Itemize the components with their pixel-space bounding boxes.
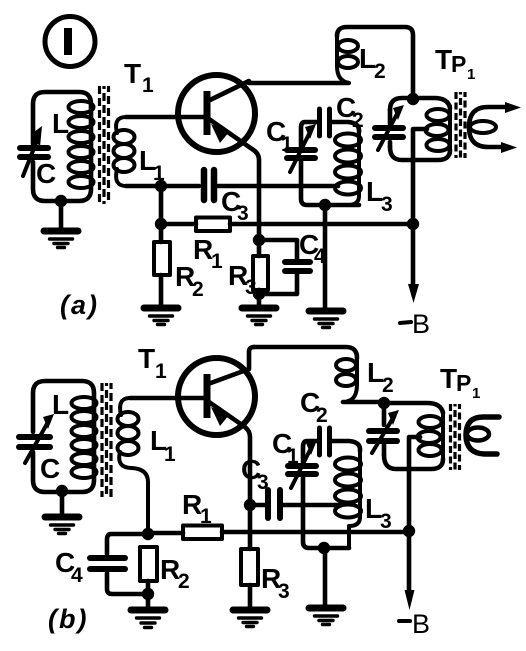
svg-text:C: C	[40, 453, 60, 484]
node R2 bottom (circuit b)	[142, 588, 154, 600]
node base bias (circuit b)	[142, 528, 154, 540]
node tank bottom (circuit b)	[56, 485, 68, 497]
resistor R2 (circuit a)	[154, 242, 170, 306]
-B arrow (circuit b)	[405, 531, 415, 610]
TP1 secondary curl (circuit a)	[469, 102, 521, 153]
-B arrow (circuit a)	[408, 224, 419, 303]
label -B (circuit b)	[399, 619, 410, 623]
ground (tank a)	[44, 201, 78, 248]
svg-text:4: 4	[71, 564, 83, 587]
svg-text:1: 1	[164, 443, 176, 466]
inductor L (circuit a)	[69, 101, 94, 188]
node emitter / C3 (circuit b)	[244, 499, 256, 511]
capacitor C1 variable (circuit b)	[288, 440, 349, 548]
svg-text:L: L	[52, 389, 69, 420]
transistor T1 (circuit a)	[178, 75, 259, 240]
node base bias (circuit a)	[155, 180, 167, 192]
resistor R2 (circuit b)	[140, 547, 157, 607]
ground (R2 b)	[131, 610, 165, 628]
svg-text:2: 2	[382, 374, 394, 397]
node tank L3 bottom (circuit a)	[319, 199, 331, 211]
svg-text:P: P	[451, 51, 466, 77]
inductor L3 (circuit a)	[335, 132, 361, 205]
svg-text:3: 3	[278, 580, 290, 603]
inductor L (circuit b)	[72, 397, 97, 478]
svg-text:1: 1	[200, 505, 212, 528]
wire collector rail (circuit b)	[254, 347, 357, 358]
svg-text:2: 2	[352, 109, 364, 132]
svg-text:3: 3	[380, 510, 392, 533]
figure number 1 (circled)	[45, 17, 95, 67]
ground (R3 a)	[242, 308, 276, 325]
wire tank bottom to ground (circuit b)	[323, 548, 328, 605]
transformer T1 core (circuit b)	[102, 383, 111, 497]
capacitor C2 (circuit a)	[301, 109, 359, 146]
tank loop wire (circuit b)	[33, 381, 94, 492]
wire L1 bottom to node	[126, 184, 161, 189]
node tank bottom (circuit a)	[55, 195, 67, 207]
svg-text:1: 1	[142, 74, 154, 97]
ground (R3 b)	[233, 610, 267, 627]
ground (R2 a)	[144, 308, 178, 325]
node tank L3 bottom (circuit b)	[318, 542, 330, 554]
svg-text:T: T	[124, 58, 141, 89]
svg-text:1: 1	[211, 250, 223, 273]
TP1 core (circuit a)	[456, 92, 465, 158]
transformer TP1 loop (circuit b)	[384, 403, 443, 469]
wire base node down (circuit a)	[159, 186, 164, 242]
svg-text:T: T	[440, 363, 457, 394]
wire tank bottom to ground (circuit a)	[323, 205, 328, 308]
svg-text:T: T	[138, 343, 155, 374]
TP1 primary coil (circuit b)	[418, 413, 444, 461]
TP1 secondary curl (circuit b)	[466, 417, 499, 454]
capacitor C4 (circuit a)	[259, 240, 310, 294]
tank loop wire (circuit a)	[33, 92, 91, 201]
svg-text:2: 2	[316, 404, 328, 427]
resistor R3 (circuit a)	[253, 240, 268, 306]
transformer TP1 loop (circuit a)	[390, 98, 450, 160]
inductor L2 (circuit a)	[337, 36, 358, 83]
inductor L1 (circuit a)	[114, 117, 135, 186]
capacitor C variable (circuit a)	[20, 126, 48, 176]
svg-text:B: B	[412, 309, 430, 339]
svg-text:3: 3	[257, 471, 269, 494]
TP1 primary coil (circuit a)	[426, 106, 451, 153]
inductor L3 (circuit b)	[335, 449, 361, 548]
variable capacitor TP1 (circuit a)	[375, 105, 404, 150]
svg-text:(b): (b)	[48, 604, 88, 634]
ground (tank b)	[45, 491, 79, 534]
capacitor C3 (circuit b)	[250, 490, 339, 518]
node TP1 top (circuit b)	[378, 397, 390, 409]
svg-text:T: T	[435, 44, 452, 75]
TP1 tap wire (circuit a)	[413, 129, 427, 224]
wire L1 top to base	[126, 115, 204, 120]
ground (L3 tank a)	[309, 311, 343, 328]
svg-text:2: 2	[374, 60, 386, 83]
svg-text:1: 1	[281, 133, 293, 156]
svg-text:1: 1	[467, 66, 475, 83]
wire L2 to TP1 (circuit b)	[343, 400, 384, 405]
svg-text:3: 3	[237, 202, 249, 225]
transformer T1 core	[100, 86, 109, 204]
svg-text:1: 1	[287, 445, 299, 468]
resistor R1 (circuit b)	[148, 526, 409, 540]
wire L1 top to base (circuit b)	[130, 396, 204, 401]
node rail to TP1 top	[407, 93, 419, 105]
svg-text:P: P	[456, 370, 471, 396]
transistor T1 device (circuit b)	[178, 347, 255, 505]
inductor L2 (circuit b)	[336, 356, 357, 401]
svg-text:1: 1	[155, 360, 167, 383]
TP1 core (circuit b)	[451, 404, 460, 470]
label -B (circuit a)	[400, 322, 411, 323]
resistor R1 (circuit a)	[161, 218, 413, 232]
capacitor C4 (circuit b)	[90, 534, 148, 594]
svg-text:2: 2	[178, 570, 190, 593]
resistor R3 (circuit b)	[241, 505, 258, 607]
svg-text:4: 4	[314, 245, 326, 268]
capacitor C variable (circuit b)	[19, 414, 54, 463]
svg-text:3: 3	[381, 193, 393, 216]
wire top rail to TP1 (circuit a)	[337, 27, 413, 98]
node -B bus (circuit b)	[403, 525, 415, 537]
svg-text:B: B	[412, 609, 430, 639]
capacitor C1 variable (circuit a)	[287, 124, 359, 205]
capacitor C2 (circuit b)	[303, 428, 360, 462]
svg-text:C: C	[36, 158, 56, 189]
inductor L1 (circuit b)	[118, 398, 149, 534]
node R1/R2 (circuit a)	[155, 218, 167, 230]
TP1 tap wire (circuit b)	[409, 437, 420, 531]
svg-text:2: 2	[192, 278, 204, 301]
wire collector to L2 (circuit a)	[249, 81, 348, 86]
svg-text:1: 1	[472, 385, 480, 402]
node -B bus (circuit a)	[407, 218, 419, 230]
svg-text:(a): (a)	[60, 290, 99, 320]
svg-text:L: L	[52, 108, 69, 139]
capacitor C3 (circuit a)	[161, 170, 338, 200]
ground (L3 tank b)	[309, 608, 343, 625]
node R3 bottom (circuit a)	[253, 288, 265, 300]
variable capacitor TP1 (circuit b)	[369, 410, 399, 453]
svg-text:3: 3	[245, 276, 257, 299]
node emitter (circuit a)	[253, 234, 265, 246]
